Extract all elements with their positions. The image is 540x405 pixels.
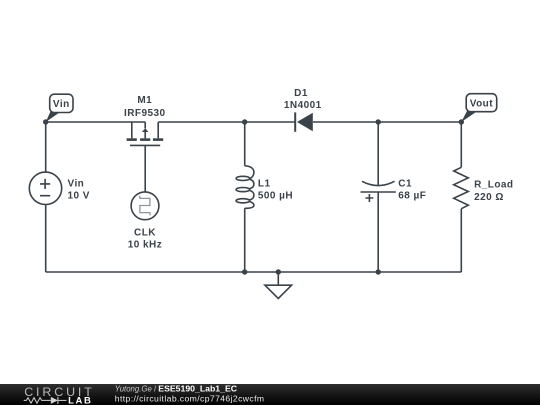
svg-text:Vin: Vin (68, 179, 85, 190)
svg-text:500 µH: 500 µH (258, 190, 293, 201)
svg-text:Vout: Vout (470, 99, 493, 110)
svg-text:R_Load: R_Load (474, 180, 513, 191)
svg-text:10 kHz: 10 kHz (128, 240, 162, 251)
svg-text:Yutong.Ge / ESE5190_Lab1_EC: Yutong.Ge / ESE5190_Lab1_EC (115, 384, 238, 394)
svg-text:220 Ω: 220 Ω (474, 192, 504, 203)
svg-text:http://circuitlab.com/cp7746j2: http://circuitlab.com/cp7746j2cwcfm (115, 394, 265, 404)
svg-text:M1: M1 (137, 95, 152, 106)
svg-text:CLK: CLK (134, 227, 156, 238)
svg-text:IRF9530: IRF9530 (124, 108, 166, 119)
svg-text:L1: L1 (258, 178, 271, 189)
svg-text:10 V: 10 V (68, 191, 90, 202)
svg-text:C1: C1 (398, 178, 412, 189)
svg-text:Vin: Vin (53, 99, 70, 110)
svg-text:D1: D1 (294, 88, 308, 99)
svg-text:68 µF: 68 µF (398, 190, 426, 201)
svg-text:1N4001: 1N4001 (284, 100, 322, 111)
svg-text:LAB: LAB (68, 395, 92, 405)
